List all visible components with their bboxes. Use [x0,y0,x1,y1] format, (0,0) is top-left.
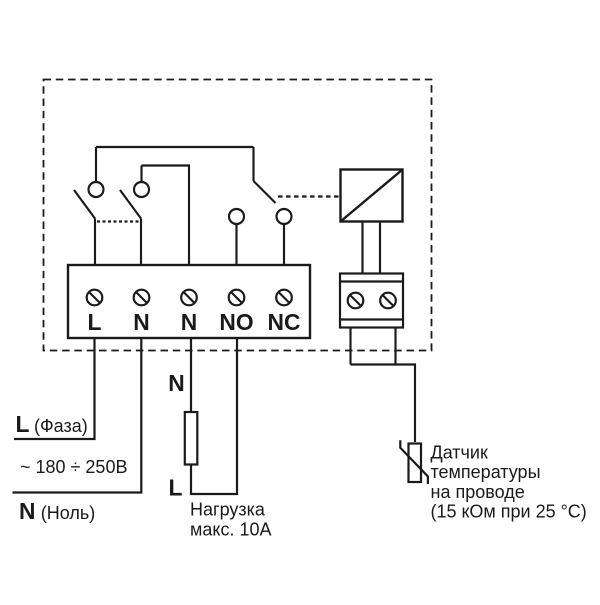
switch S2 fixed contact [134,182,149,197]
svg-text:(Ноль): (Ноль) [41,503,95,523]
wire: down to relay arm pivot [252,147,254,181]
screw terminal NO [229,290,245,306]
wire: sensor cable to thermistor [351,365,416,443]
sensor terminal connector X2 [340,274,403,328]
screw terminal N (pin 2) [134,290,150,306]
screw X2-1 [348,293,364,309]
svg-text:L: L [169,475,183,501]
svg-text:макс. 10А: макс. 10А [190,520,272,540]
relay actuator / electronic module U1 [341,170,403,222]
svg-text:температуры: температуры [431,462,541,482]
switch S2 arm (pole 2, open) [120,190,141,219]
wire: terminal L up to switch S1 pivot [94,219,96,266]
svg-text:NC: NC [268,309,301,335]
wire: load to terminal NO [191,338,237,494]
wire: NC contact to terminal NC [283,224,285,265]
svg-text:NO: NO [219,309,253,335]
wire: terminal N down and left (neutral in) [13,338,142,493]
svg-text:(Фаза): (Фаза) [34,416,88,436]
svg-text:Нагрузка: Нагрузка [190,499,266,519]
svg-text:на проводе: на проводе [431,482,525,502]
relay NC fixed contact [277,209,292,224]
switch S1 arm (pole 1, open) [74,190,95,219]
wire: NO contact to terminal NO [235,224,237,265]
wire: terminal N (pin 2) up to switch S2 pivot [140,219,142,266]
wire: top bus from S1 to relay arm [96,146,254,148]
wire: S2 contact up [140,166,142,183]
sensor cable gland below connector [349,328,351,365]
svg-text:N: N [168,370,184,396]
svg-text:L: L [88,309,102,335]
pillar: module to sensor connector [361,222,363,274]
svg-text:N: N [133,309,149,335]
svg-text:~ 180 ÷ 250В: ~ 180 ÷ 250В [20,457,127,477]
svg-text:L: L [16,411,30,437]
relay K1 movable arm [254,181,276,203]
wire: S1 contact up [95,147,97,182]
dashed mechanical link: relay arm to actuator [278,195,341,197]
wire: terminal L down and left (phase in) [14,338,95,439]
wire: loop from S2 to terminal N (pin 3) [142,166,190,266]
switch S1 fixed contact [89,182,104,197]
terminal block X1 [68,265,310,338]
load resistor (Нагрузка) [185,412,198,465]
screw terminal N (pin 3) [181,290,197,306]
thermostat enclosure (dashed outline) [44,80,432,351]
screw terminal NC [276,290,292,306]
svg-text:Датчик: Датчик [431,442,488,462]
relay NO fixed contact [229,209,244,224]
svg-text:N: N [19,498,35,524]
thermistor RT1 (temperature sensor) [400,440,428,484]
svg-text:N: N [181,309,197,335]
dashed mechanical coupling S1-S2 [97,220,139,222]
wire: terminal N (pin 3) down to load [190,338,192,412]
svg-text:(15 кОм при 25 °С): (15 кОм при 25 °С) [431,502,587,522]
screw X2-2 [380,293,396,309]
screw terminal L [87,290,103,306]
